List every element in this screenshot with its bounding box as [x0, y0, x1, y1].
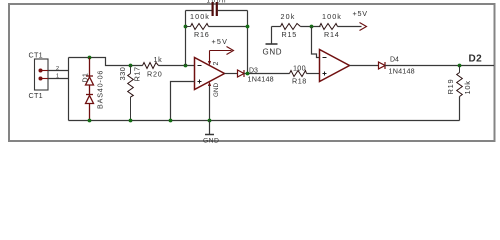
svg-text:100n: 100n — [207, 0, 227, 5]
wire CT1 pin2 stub — [48, 70, 69, 72]
connector CT1 — [29, 51, 60, 101]
svg-text:R19: R19 — [446, 79, 455, 95]
svg-text:CT1: CT1 — [29, 51, 43, 60]
svg-text:100k: 100k — [190, 12, 210, 21]
svg-text:R15: R15 — [282, 30, 298, 39]
svg-text:GND: GND — [263, 48, 283, 57]
svg-text:R17: R17 — [133, 67, 142, 82]
resistor R20 1k — [143, 63, 159, 69]
svg-text:GND: GND — [213, 83, 220, 97]
svg-text:20k: 20k — [281, 12, 296, 21]
resistor R18 100 — [290, 71, 307, 77]
svg-text:100k: 100k — [322, 12, 342, 21]
wire divider to opamp2 -input — [312, 27, 321, 58]
svg-text:+5V: +5V — [353, 9, 368, 18]
wire opamp2 output — [350, 65, 379, 67]
node divider — [310, 25, 314, 29]
wire opamp1 output — [225, 73, 238, 75]
resistor R19 10k vertical — [457, 66, 463, 121]
svg-text:+5V: +5V — [212, 37, 229, 46]
svg-text:2: 2 — [213, 62, 220, 66]
junction rail R17 — [129, 119, 133, 123]
wire left vertical — [68, 58, 70, 121]
svg-text:D1: D1 — [83, 73, 90, 83]
wire D4 to frame edge — [385, 65, 494, 67]
node R16 left — [184, 25, 188, 29]
svg-text:330: 330 — [118, 67, 127, 81]
wire feedback left leg — [185, 11, 187, 66]
svg-text:R20: R20 — [147, 70, 163, 79]
svg-text:BAS40-06: BAS40-06 — [96, 70, 105, 109]
svg-text:1k: 1k — [154, 55, 163, 64]
node feedback left — [184, 64, 188, 68]
wire cap top left — [186, 10, 212, 12]
wire cap top right — [218, 10, 248, 12]
wire R16 right — [209, 26, 248, 28]
wire top row y57 — [69, 58, 143, 66]
wire R18 to opamp2 — [307, 73, 320, 75]
resistor R17 330 vertical — [128, 66, 134, 121]
ground GND1 (R15) — [266, 27, 278, 45]
wire CT1 pin1 stub — [48, 78, 69, 80]
+5V supply right — [338, 26, 362, 28]
svg-text:R18: R18 — [292, 77, 307, 86]
svg-text:10k: 10k — [463, 80, 472, 94]
node R16 right — [246, 25, 250, 29]
junction rail gnd — [208, 119, 212, 123]
node D1 top — [88, 56, 92, 60]
wire R15 to node — [301, 26, 321, 28]
capacitor C feedback — [212, 2, 218, 16]
diode D1 BAS40-06 — [86, 58, 94, 121]
wire opamp1 +input — [171, 82, 195, 121]
ground GND2 — [205, 121, 214, 135]
svg-text:D4: D4 — [390, 57, 399, 64]
wire feedback right leg — [247, 11, 249, 74]
op-amp U1 V+ pin and +5V — [208, 47, 234, 66]
svg-text:100: 100 — [293, 64, 306, 73]
svg-text:D2: D2 — [469, 54, 483, 65]
junction rail opamp1 + — [169, 119, 173, 123]
resistor R16 100k — [186, 24, 209, 30]
svg-text:R16: R16 — [194, 30, 210, 39]
node R17 top — [129, 64, 133, 68]
diode D3 1N4148 — [238, 70, 245, 77]
node R19 top — [458, 64, 462, 68]
wire ground rail — [69, 120, 460, 122]
diode D4 1N4148 — [379, 62, 386, 69]
svg-text:1N4148: 1N4148 — [389, 67, 415, 76]
junction rail D1 — [88, 119, 92, 123]
node D3 cathode — [244, 73, 290, 75]
wire R20 to opamp — [159, 65, 195, 67]
resistor R15 20k — [272, 26, 281, 28]
svg-text:R14: R14 — [324, 30, 340, 39]
svg-text:CT1: CT1 — [29, 91, 43, 100]
svg-text:1N4148: 1N4148 — [248, 75, 274, 84]
wire R19 bottom leg — [459, 97, 461, 121]
op-amp U2 — [320, 50, 350, 82]
op-amp U1 GND pin — [208, 82, 211, 121]
resistor R14 100k — [320, 24, 338, 30]
svg-text:GND: GND — [203, 138, 219, 145]
op-amp U1 — [195, 58, 225, 90]
